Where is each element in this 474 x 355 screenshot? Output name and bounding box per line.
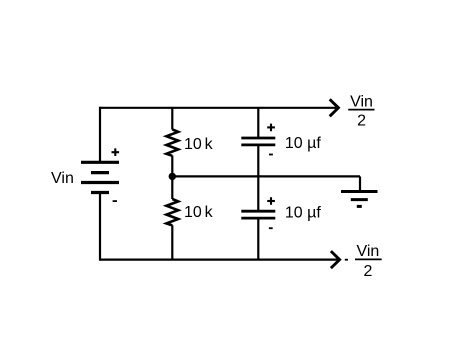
svg-text:2: 2 (357, 112, 366, 129)
svg-text:10 µf: 10 µf (285, 204, 321, 221)
wire resistor branch top (171, 108, 173, 130)
svg-text:10 k: 10 k (184, 136, 214, 153)
capacitor C2 plates (241, 211, 275, 218)
capacitor C2 minus sign (269, 227, 273, 229)
capacitor C1 plus sign (267, 124, 275, 132)
wire below resistor R2 (171, 225, 173, 259)
node label Vin/2 (top output) (348, 93, 374, 129)
wire capacitor branch top (257, 108, 259, 138)
svg-text:Vin: Vin (350, 93, 373, 110)
wire ground drop (359, 176, 361, 191)
resistor R2 zigzag (166, 199, 178, 225)
battery plus sign (112, 148, 120, 156)
node label -Vin/2 (bottom output) (345, 243, 382, 280)
node junction dot (169, 173, 176, 180)
wire left vertical (top) (99, 107, 101, 163)
capacitor C2 plus sign (267, 197, 275, 205)
svg-text:10 µf: 10 µf (285, 135, 321, 152)
wire capacitor branch bottom (257, 218, 259, 260)
arrowhead top output (330, 99, 339, 116)
wire capacitor branch middle (257, 145, 259, 211)
svg-text:2: 2 (364, 263, 373, 280)
ground symbol (341, 192, 378, 207)
wire between resistors (171, 156, 173, 199)
capacitor C1 minus sign (269, 154, 273, 156)
wire bottom rail (100, 259, 338, 261)
battery V1 (Vin source) (81, 162, 119, 192)
svg-text:10 k: 10 k (184, 204, 214, 221)
battery minus sign (113, 200, 117, 202)
wire top rail (100, 107, 336, 109)
svg-text:Vin: Vin (51, 170, 74, 187)
wire middle rail from node to ground (172, 175, 360, 177)
capacitor C1 plates (241, 138, 275, 145)
arrowhead bottom output (331, 251, 340, 268)
resistor R1 zigzag (166, 129, 178, 155)
svg-text:Vin: Vin (356, 243, 379, 260)
wire left vertical (bottom) (99, 193, 101, 261)
